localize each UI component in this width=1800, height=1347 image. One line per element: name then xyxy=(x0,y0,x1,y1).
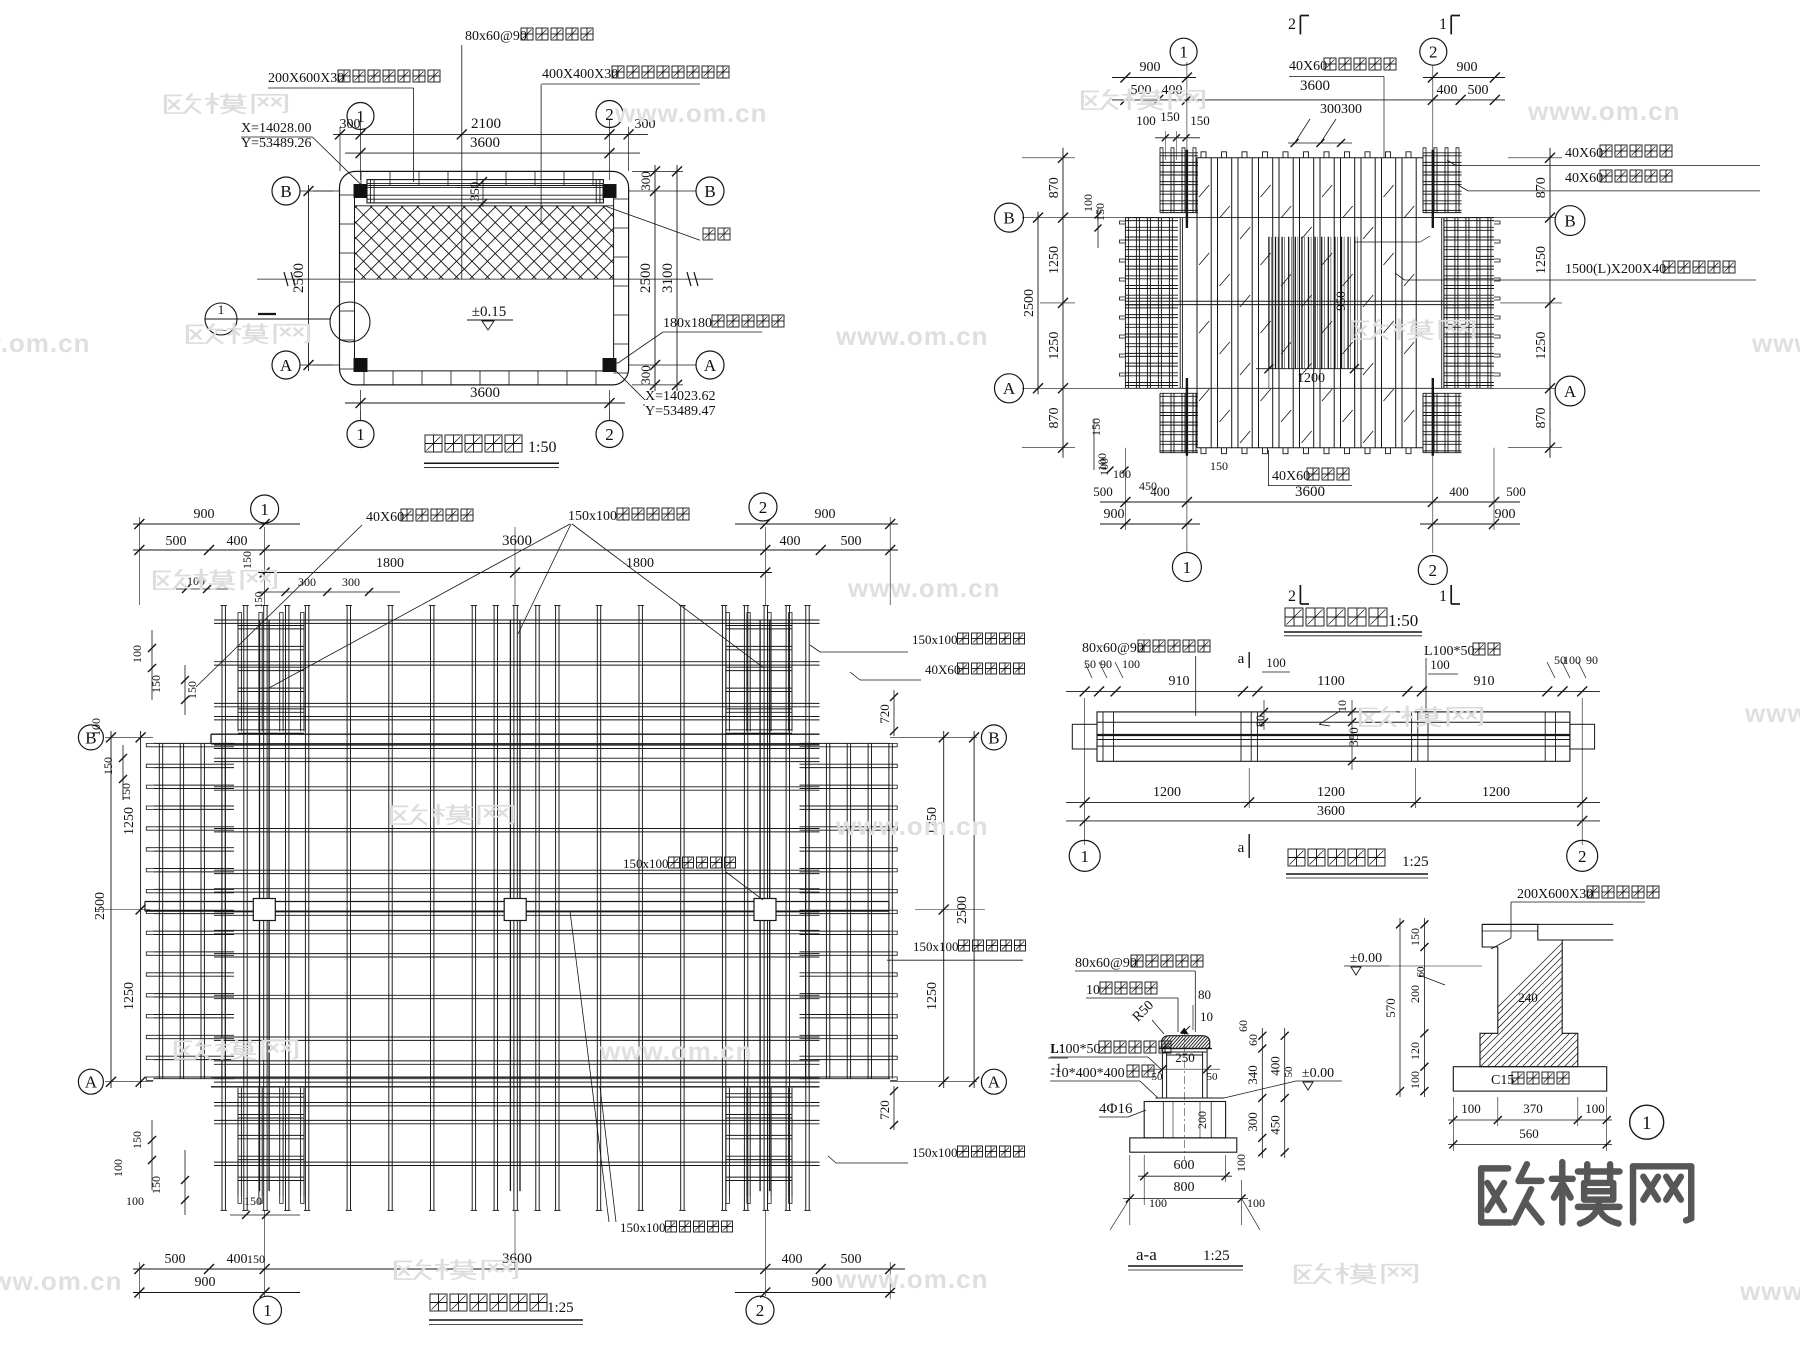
svg-text:4Φ16: 4Φ16 xyxy=(1099,1101,1133,1117)
grille block top-left xyxy=(1160,148,1198,213)
dim row top 300/2100/300 xyxy=(333,116,656,139)
aa label 4phi16 xyxy=(1099,1101,1146,1117)
grid bubble 2 top roof xyxy=(1420,38,1447,65)
svg-text:1250: 1250 xyxy=(925,982,940,1010)
svg-text:1100: 1100 xyxy=(1317,674,1344,689)
aa center axis xyxy=(1184,1028,1186,1160)
label 40X60 grille top xyxy=(196,509,473,687)
svg-text:150: 150 xyxy=(247,1252,265,1266)
svg-text:1800: 1800 xyxy=(376,556,404,571)
ceiling bottom grille block left xyxy=(238,1088,304,1204)
section mark 2 bottom xyxy=(1288,585,1309,605)
short post pads xyxy=(253,899,776,921)
section mark 1 top xyxy=(1439,16,1460,35)
aa dim 250 across post xyxy=(1150,1050,1220,1083)
label 150x100 duanzhu center xyxy=(621,855,763,900)
svg-text:500: 500 xyxy=(841,534,862,549)
paving band joint ticks xyxy=(340,171,629,385)
svg-text:150: 150 xyxy=(1160,109,1180,124)
svg-text:450: 450 xyxy=(1268,1115,1283,1135)
svg-text:1: 1 xyxy=(1439,588,1447,605)
seat bar right stub xyxy=(1570,724,1595,749)
aa label 10 bolt xyxy=(1086,982,1178,1032)
grille block bottom-left xyxy=(1160,393,1198,452)
aa label 80x60@90 xyxy=(1075,955,1203,1032)
svg-text:500: 500 xyxy=(1093,484,1113,499)
svg-text:3100: 3100 xyxy=(660,263,676,293)
grid construction lines roof xyxy=(1022,62,1556,553)
slab dim 570 left outer xyxy=(1383,918,1404,1097)
ceiling dim top row3 1800 1800 xyxy=(240,551,772,578)
title ceiling plan xyxy=(429,1294,583,1325)
ceiling center beam vertical xyxy=(510,620,520,1191)
roof dim chain left xyxy=(1022,148,1075,458)
svg-text:1250: 1250 xyxy=(1047,332,1062,360)
roof bottom label 40X60 wood xyxy=(1268,450,1352,486)
svg-text:400X400X30: 400X400X30 xyxy=(542,67,618,82)
roof center leader xyxy=(1354,236,1430,242)
svg-text:www.om.cn: www.om.cn xyxy=(847,573,1001,603)
svg-text:900: 900 xyxy=(1104,507,1125,522)
svg-text:2500: 2500 xyxy=(291,263,307,293)
ceiling small dims left B 100 150 150 xyxy=(89,718,133,801)
svg-text:150: 150 xyxy=(149,675,163,693)
svg-text:2: 2 xyxy=(756,1301,765,1320)
svg-text:250: 250 xyxy=(1175,1050,1195,1065)
detail circle on wall xyxy=(330,302,370,342)
svg-text:560: 560 xyxy=(1519,1126,1539,1141)
label zuoyi seat xyxy=(605,206,730,240)
svg-text:www.om.cn: www.om.cn xyxy=(614,98,768,128)
svg-text:80x60@90: 80x60@90 xyxy=(1082,641,1144,656)
grid bubble 1 top xyxy=(347,103,374,130)
aa dims 80 10 top xyxy=(1180,987,1213,1034)
aa pedestal xyxy=(1144,1102,1225,1138)
svg-text:200X600X30: 200X600X30 xyxy=(1517,887,1593,902)
svg-text:A: A xyxy=(85,1073,98,1092)
dim 720 right top xyxy=(877,690,898,736)
svg-text:1: 1 xyxy=(218,302,225,317)
column C3 grid1/A 180x180 xyxy=(354,359,367,372)
svg-text:340: 340 xyxy=(1245,1065,1260,1085)
svg-text:L100*50: L100*50 xyxy=(1050,1042,1101,1057)
seat label L100x50 angle xyxy=(1424,643,1500,718)
seat small dims 50 90 100 left xyxy=(1084,657,1140,678)
level mark +-0.15 xyxy=(467,304,513,330)
svg-text:180x180: 180x180 xyxy=(663,316,712,331)
svg-text:2: 2 xyxy=(605,105,614,124)
roof small dims 100 150 150 xyxy=(1136,109,1210,160)
seat inner small dims 10 80 350 xyxy=(1253,700,1361,770)
tiny L1 -1 right edge xyxy=(1048,1041,1068,1075)
roof bottom small dims 150 100 xyxy=(1095,453,1228,473)
roof beam grid2 xyxy=(1432,150,1434,456)
svg-text:1250: 1250 xyxy=(1047,246,1062,274)
dim right chain 300/2500/300 xyxy=(638,165,660,391)
svg-text:Y=53489.26: Y=53489.26 xyxy=(241,136,312,151)
svg-text:150: 150 xyxy=(244,1194,262,1208)
roof center beam horizontal xyxy=(1125,301,1494,304)
svg-text:40X60: 40X60 xyxy=(1565,146,1603,161)
ceiling beam grid2 vertical xyxy=(760,620,770,1191)
seat dim top row 910/1100/910 xyxy=(1066,674,1600,696)
label 40X60 geshan right xyxy=(850,662,1025,680)
roof dim bottom 900 row xyxy=(1100,448,1520,530)
svg-text:150x100: 150x100 xyxy=(912,632,958,647)
svg-text:570: 570 xyxy=(1383,998,1398,1018)
svg-text:1: 1 xyxy=(1179,43,1188,62)
ceiling small dims left bottom 150 100 150 100 xyxy=(111,1120,189,1215)
svg-text:150: 150 xyxy=(1190,113,1210,128)
svg-text:500: 500 xyxy=(1506,484,1526,499)
svg-text:www.om.cn: www.om.cn xyxy=(835,321,989,351)
svg-text:900: 900 xyxy=(195,1275,216,1290)
svg-text:350: 350 xyxy=(1346,727,1361,747)
svg-text:100: 100 xyxy=(1095,453,1109,471)
svg-text:150x100: 150x100 xyxy=(620,1220,666,1235)
grid bubble A left xyxy=(272,351,340,379)
svg-text:100: 100 xyxy=(1563,653,1581,667)
extension lines top xyxy=(340,120,629,180)
svg-text:100: 100 xyxy=(1113,467,1131,481)
section mark 1 bottom xyxy=(1439,585,1460,605)
dim right 1250/1250/2500 xyxy=(915,731,985,1088)
svg-text:50: 50 xyxy=(1152,1071,1164,1083)
detail bubble 1 xyxy=(1630,1105,1664,1139)
svg-text:B: B xyxy=(280,182,291,201)
dim row top 3600 xyxy=(345,135,640,158)
svg-text:-10*400*400: -10*400*400 xyxy=(1050,1066,1125,1081)
svg-text:870: 870 xyxy=(1047,177,1062,198)
svg-text:60: 60 xyxy=(1415,966,1427,978)
title bottom plan xyxy=(424,435,559,468)
svg-text:2: 2 xyxy=(1429,561,1438,580)
svg-text:2: 2 xyxy=(1429,43,1438,62)
dim left 2500 xyxy=(291,185,333,371)
svg-text:600: 600 xyxy=(1174,1158,1195,1173)
roof dim row 500/400 top xyxy=(1112,83,1505,105)
aa label R50 xyxy=(1130,998,1164,1034)
svg-text:2500: 2500 xyxy=(955,896,970,924)
svg-text:120: 120 xyxy=(1408,1042,1422,1060)
svg-text:www.om.cn: www.om.cn xyxy=(1744,698,1800,728)
roof dim chain right xyxy=(1500,148,1562,458)
roof dim 950 center xyxy=(1333,291,1348,311)
seat bar body xyxy=(1097,712,1570,761)
seat label 80x60@90 top-left xyxy=(1082,640,1210,716)
grille block top-right xyxy=(1423,148,1462,213)
aa dim 200 pedestal xyxy=(1195,1103,1209,1137)
svg-text:B: B xyxy=(1564,212,1575,231)
svg-text:100: 100 xyxy=(1461,1101,1481,1116)
grid bubble 1 top roof xyxy=(1170,38,1197,65)
label 80x60@90 seat top xyxy=(462,28,593,279)
svg-text:C15: C15 xyxy=(1491,1073,1514,1088)
svg-text:3600: 3600 xyxy=(1300,78,1330,94)
svg-text:900: 900 xyxy=(1495,507,1516,522)
svg-text:www.om.cn: www.om.cn xyxy=(1527,96,1681,126)
ceiling top grille block left xyxy=(238,613,304,734)
svg-text:400: 400 xyxy=(1437,83,1458,98)
svg-text:150: 150 xyxy=(253,591,265,608)
ceiling center beam horizontal xyxy=(145,902,889,912)
seat section mark a top xyxy=(1238,651,1290,672)
svg-text:A: A xyxy=(1564,382,1577,401)
svg-text:80: 80 xyxy=(1198,987,1211,1002)
svg-text:150: 150 xyxy=(101,757,115,775)
svg-text:910: 910 xyxy=(1169,674,1190,689)
svg-text:1: 1 xyxy=(263,1301,272,1320)
svg-text:150: 150 xyxy=(130,1131,144,1149)
svg-text:150: 150 xyxy=(240,551,254,569)
grid bubble B left roof xyxy=(995,203,1024,232)
svg-text:1250: 1250 xyxy=(1534,332,1549,360)
svg-text:10: 10 xyxy=(1335,700,1349,712)
svg-text:100: 100 xyxy=(1408,1071,1422,1089)
ceiling wing grille left xyxy=(146,743,234,1080)
svg-text:www.om.cn: www.om.cn xyxy=(0,1266,123,1296)
ceiling dim top row2 500/400 3600 400/500 xyxy=(133,533,898,555)
aa label -10*400*400 plate xyxy=(1050,1065,1158,1098)
ceiling grid bubble B right xyxy=(981,725,1006,750)
svg-text:200: 200 xyxy=(1408,985,1422,1003)
svg-text:2: 2 xyxy=(605,425,614,444)
svg-text:150x100: 150x100 xyxy=(568,509,617,524)
svg-text:150: 150 xyxy=(1408,928,1422,946)
label 150x100 hengliang right xyxy=(887,939,1026,960)
grid bubble 2 top xyxy=(596,101,623,128)
svg-text:1500(L)X200X40: 1500(L)X200X40 xyxy=(1565,262,1666,277)
dim 720 right bottom xyxy=(877,1086,898,1130)
seat band (bench) top xyxy=(367,180,603,203)
ceiling beam grid1 vertical xyxy=(260,620,270,1191)
roof dim bottom 3600 row xyxy=(1093,484,1526,507)
svg-text:100: 100 xyxy=(1122,657,1140,671)
svg-text:1:25: 1:25 xyxy=(547,1300,574,1316)
grid bubble B left xyxy=(272,177,340,205)
column C2 grid2/B 180x180 xyxy=(603,185,616,198)
column C1 grid1/B 180x180 xyxy=(354,185,367,198)
svg-text:X=14028.00: X=14028.00 xyxy=(241,121,312,136)
svg-text:1: 1 xyxy=(1080,847,1089,866)
svg-text:150: 150 xyxy=(1089,418,1103,436)
slab leader small xyxy=(1415,966,1497,985)
svg-text:400: 400 xyxy=(1449,484,1469,499)
svg-text:150x100: 150x100 xyxy=(623,856,669,871)
svg-text:200: 200 xyxy=(1195,1111,1209,1129)
ceiling dim bottom 900 row xyxy=(133,1262,895,1299)
svg-text:950: 950 xyxy=(1333,291,1348,311)
ceiling bottom grille block right xyxy=(726,1088,792,1204)
svg-text:720: 720 xyxy=(877,1100,892,1120)
title roof plan xyxy=(1284,608,1422,636)
svg-text:300: 300 xyxy=(638,171,653,191)
label 150x100 hengliang bottom center xyxy=(570,911,733,1235)
svg-text:2: 2 xyxy=(1288,588,1296,605)
svg-text:www.om.cn: www.om.cn xyxy=(0,328,91,358)
svg-text:40X60: 40X60 xyxy=(1289,59,1327,74)
svg-text:1: 1 xyxy=(1642,1113,1652,1134)
ceiling grid bubble 2 top xyxy=(749,493,777,521)
seat section mark a bottom xyxy=(1238,834,1250,858)
svg-text:40X60: 40X60 xyxy=(366,510,404,525)
ceiling small dims topleft 100 300 300 xyxy=(176,574,400,608)
roof top label 40X60 grille + 3600 xyxy=(1289,58,1396,158)
svg-text:www.om.cn: www.om.cn xyxy=(599,1036,753,1066)
svg-text:400: 400 xyxy=(1268,1056,1283,1076)
seat bar dividers xyxy=(1103,712,1556,761)
aa dim 600 bottom xyxy=(1138,1155,1232,1205)
aa label L100*50 angle paint xyxy=(1050,1041,1171,1070)
svg-text:1250: 1250 xyxy=(1534,246,1549,274)
seat small dims right 50 100 90 xyxy=(1547,653,1598,678)
grid bubble B right xyxy=(629,177,724,205)
svg-text:200X600X30: 200X600X30 xyxy=(268,71,344,86)
svg-text:1250: 1250 xyxy=(122,982,137,1010)
svg-text:910: 910 xyxy=(1474,674,1495,689)
svg-text:50: 50 xyxy=(1283,1066,1295,1078)
svg-text:900: 900 xyxy=(815,507,836,522)
seat bar left stub xyxy=(1072,724,1097,749)
title seat plan xyxy=(1286,849,1429,878)
svg-text:1:50: 1:50 xyxy=(1388,611,1418,630)
svg-text:2500: 2500 xyxy=(93,892,108,920)
ceiling vertical battens xyxy=(221,606,811,1211)
svg-text:240: 240 xyxy=(1518,990,1538,1005)
svg-text:2100: 2100 xyxy=(471,116,501,132)
svg-text:a: a xyxy=(1238,840,1245,856)
svg-text:100: 100 xyxy=(1149,1196,1167,1210)
grille block bottom-right xyxy=(1423,393,1462,452)
roof dim 1200 center xyxy=(1256,364,1364,388)
ceiling dim left 2500/1250 xyxy=(93,731,150,1088)
svg-text:500: 500 xyxy=(166,534,187,549)
svg-text:150: 150 xyxy=(149,1176,163,1194)
svg-text:1250: 1250 xyxy=(122,807,137,835)
ceiling dim bottom 3600 row xyxy=(133,1251,905,1274)
svg-text:100: 100 xyxy=(1247,1196,1265,1210)
svg-text:a-a: a-a xyxy=(1136,1245,1157,1264)
ceiling horizontal battens xyxy=(214,620,820,1166)
svg-text:www.om.cn: www.om.cn xyxy=(1739,1276,1800,1306)
label 180x180 column xyxy=(616,315,784,363)
slab dim chain left inner xyxy=(1408,918,1428,1097)
svg-text:1: 1 xyxy=(356,107,365,126)
grille wing left xyxy=(1119,218,1178,389)
roof central dense battens 1200x950 xyxy=(1269,237,1357,369)
svg-text:www.om.cn: www.om.cn xyxy=(835,811,989,841)
svg-text:870: 870 xyxy=(1534,408,1549,429)
svg-text:150: 150 xyxy=(119,783,133,801)
svg-text:80x60@90: 80x60@90 xyxy=(465,29,527,44)
svg-text:60: 60 xyxy=(1236,1020,1250,1032)
svg-text:40X60: 40X60 xyxy=(925,662,960,677)
ceiling wing grille right xyxy=(800,743,898,1080)
svg-text:100: 100 xyxy=(126,1194,144,1208)
svg-text:90: 90 xyxy=(1100,657,1112,671)
svg-text:a: a xyxy=(1238,651,1245,667)
svg-text:100: 100 xyxy=(1234,1154,1248,1172)
roof small dims left 100 150 xyxy=(1081,194,1107,248)
svg-text:1200: 1200 xyxy=(1153,785,1181,800)
svg-text:150: 150 xyxy=(185,681,199,699)
svg-text:3600: 3600 xyxy=(470,135,500,151)
dim bottom 3600 xyxy=(345,385,625,410)
svg-text:A: A xyxy=(704,356,717,375)
svg-text:1: 1 xyxy=(1183,558,1192,577)
label 150x100 xieliang right top xyxy=(810,632,1025,652)
svg-text:350: 350 xyxy=(467,182,482,202)
grid bubble A right xyxy=(629,351,724,379)
dim right 3100 xyxy=(632,165,683,391)
slab C15 footing xyxy=(1453,1067,1606,1091)
ceiling grid bubble A left xyxy=(78,1069,103,1094)
svg-text:900: 900 xyxy=(1457,60,1478,75)
svg-text:2500: 2500 xyxy=(638,263,654,293)
ceiling top grille block right xyxy=(726,613,792,734)
svg-text:1:25: 1:25 xyxy=(1203,1248,1230,1264)
seat grid bubble 2 xyxy=(1567,840,1598,871)
ceiling grid bubble 1 top xyxy=(251,495,279,523)
centerline with break marks xyxy=(257,272,713,286)
svg-text:300: 300 xyxy=(638,365,653,385)
svg-text:500: 500 xyxy=(165,1252,186,1267)
roof planks field xyxy=(1197,152,1423,454)
ceiling grid bubble B left xyxy=(78,725,103,750)
svg-text:2500: 2500 xyxy=(1022,289,1037,317)
om.cn logo bottom right xyxy=(1481,1162,1691,1223)
roof label plank right xyxy=(1395,261,1756,280)
svg-text:1: 1 xyxy=(356,425,365,444)
svg-text:B: B xyxy=(1003,209,1014,228)
svg-text:1200: 1200 xyxy=(1482,785,1510,800)
roof beam grid1 xyxy=(1186,150,1188,456)
svg-text:40X60: 40X60 xyxy=(1272,469,1310,484)
aa footing xyxy=(1130,1138,1237,1152)
svg-text:400: 400 xyxy=(227,534,248,549)
svg-text:100: 100 xyxy=(1430,657,1450,672)
svg-text:400: 400 xyxy=(782,1252,803,1267)
column C4 grid2/A 180x180 xyxy=(603,359,616,372)
svg-text:B: B xyxy=(988,728,999,747)
label 150x100 beam top xyxy=(269,508,764,688)
svg-text:X=14023.62: X=14023.62 xyxy=(645,389,716,404)
title a-a xyxy=(1128,1245,1243,1270)
svg-text:3600: 3600 xyxy=(1295,484,1325,500)
svg-text:720: 720 xyxy=(877,704,892,724)
grid bubble 1 bottom xyxy=(347,410,374,448)
svg-text:60: 60 xyxy=(1246,1034,1260,1046)
aa post angle steel xyxy=(1162,1049,1207,1099)
svg-text:A: A xyxy=(1003,379,1016,398)
ceiling grid construction lines xyxy=(105,527,977,1296)
grid bubble A right roof xyxy=(1555,376,1585,406)
ceiling grid bubble A right xyxy=(981,1069,1006,1094)
svg-text:100: 100 xyxy=(130,645,144,663)
svg-text:50: 50 xyxy=(1207,1071,1219,1083)
svg-text:870: 870 xyxy=(1047,408,1062,429)
seat dim 3600 row xyxy=(1066,698,1600,845)
aa level +-0.00 xyxy=(1224,1066,1342,1098)
svg-text:150x100: 150x100 xyxy=(913,939,959,954)
svg-text:1: 1 xyxy=(1439,16,1447,33)
svg-text:900: 900 xyxy=(1140,60,1161,75)
grid bubble 1 bottom roof xyxy=(1172,553,1201,582)
svg-text:90: 90 xyxy=(1586,653,1598,667)
svg-text:3600: 3600 xyxy=(502,533,532,549)
svg-text:370: 370 xyxy=(1523,1101,1543,1116)
aa dim chain right inner 340/300 xyxy=(1245,1028,1266,1158)
